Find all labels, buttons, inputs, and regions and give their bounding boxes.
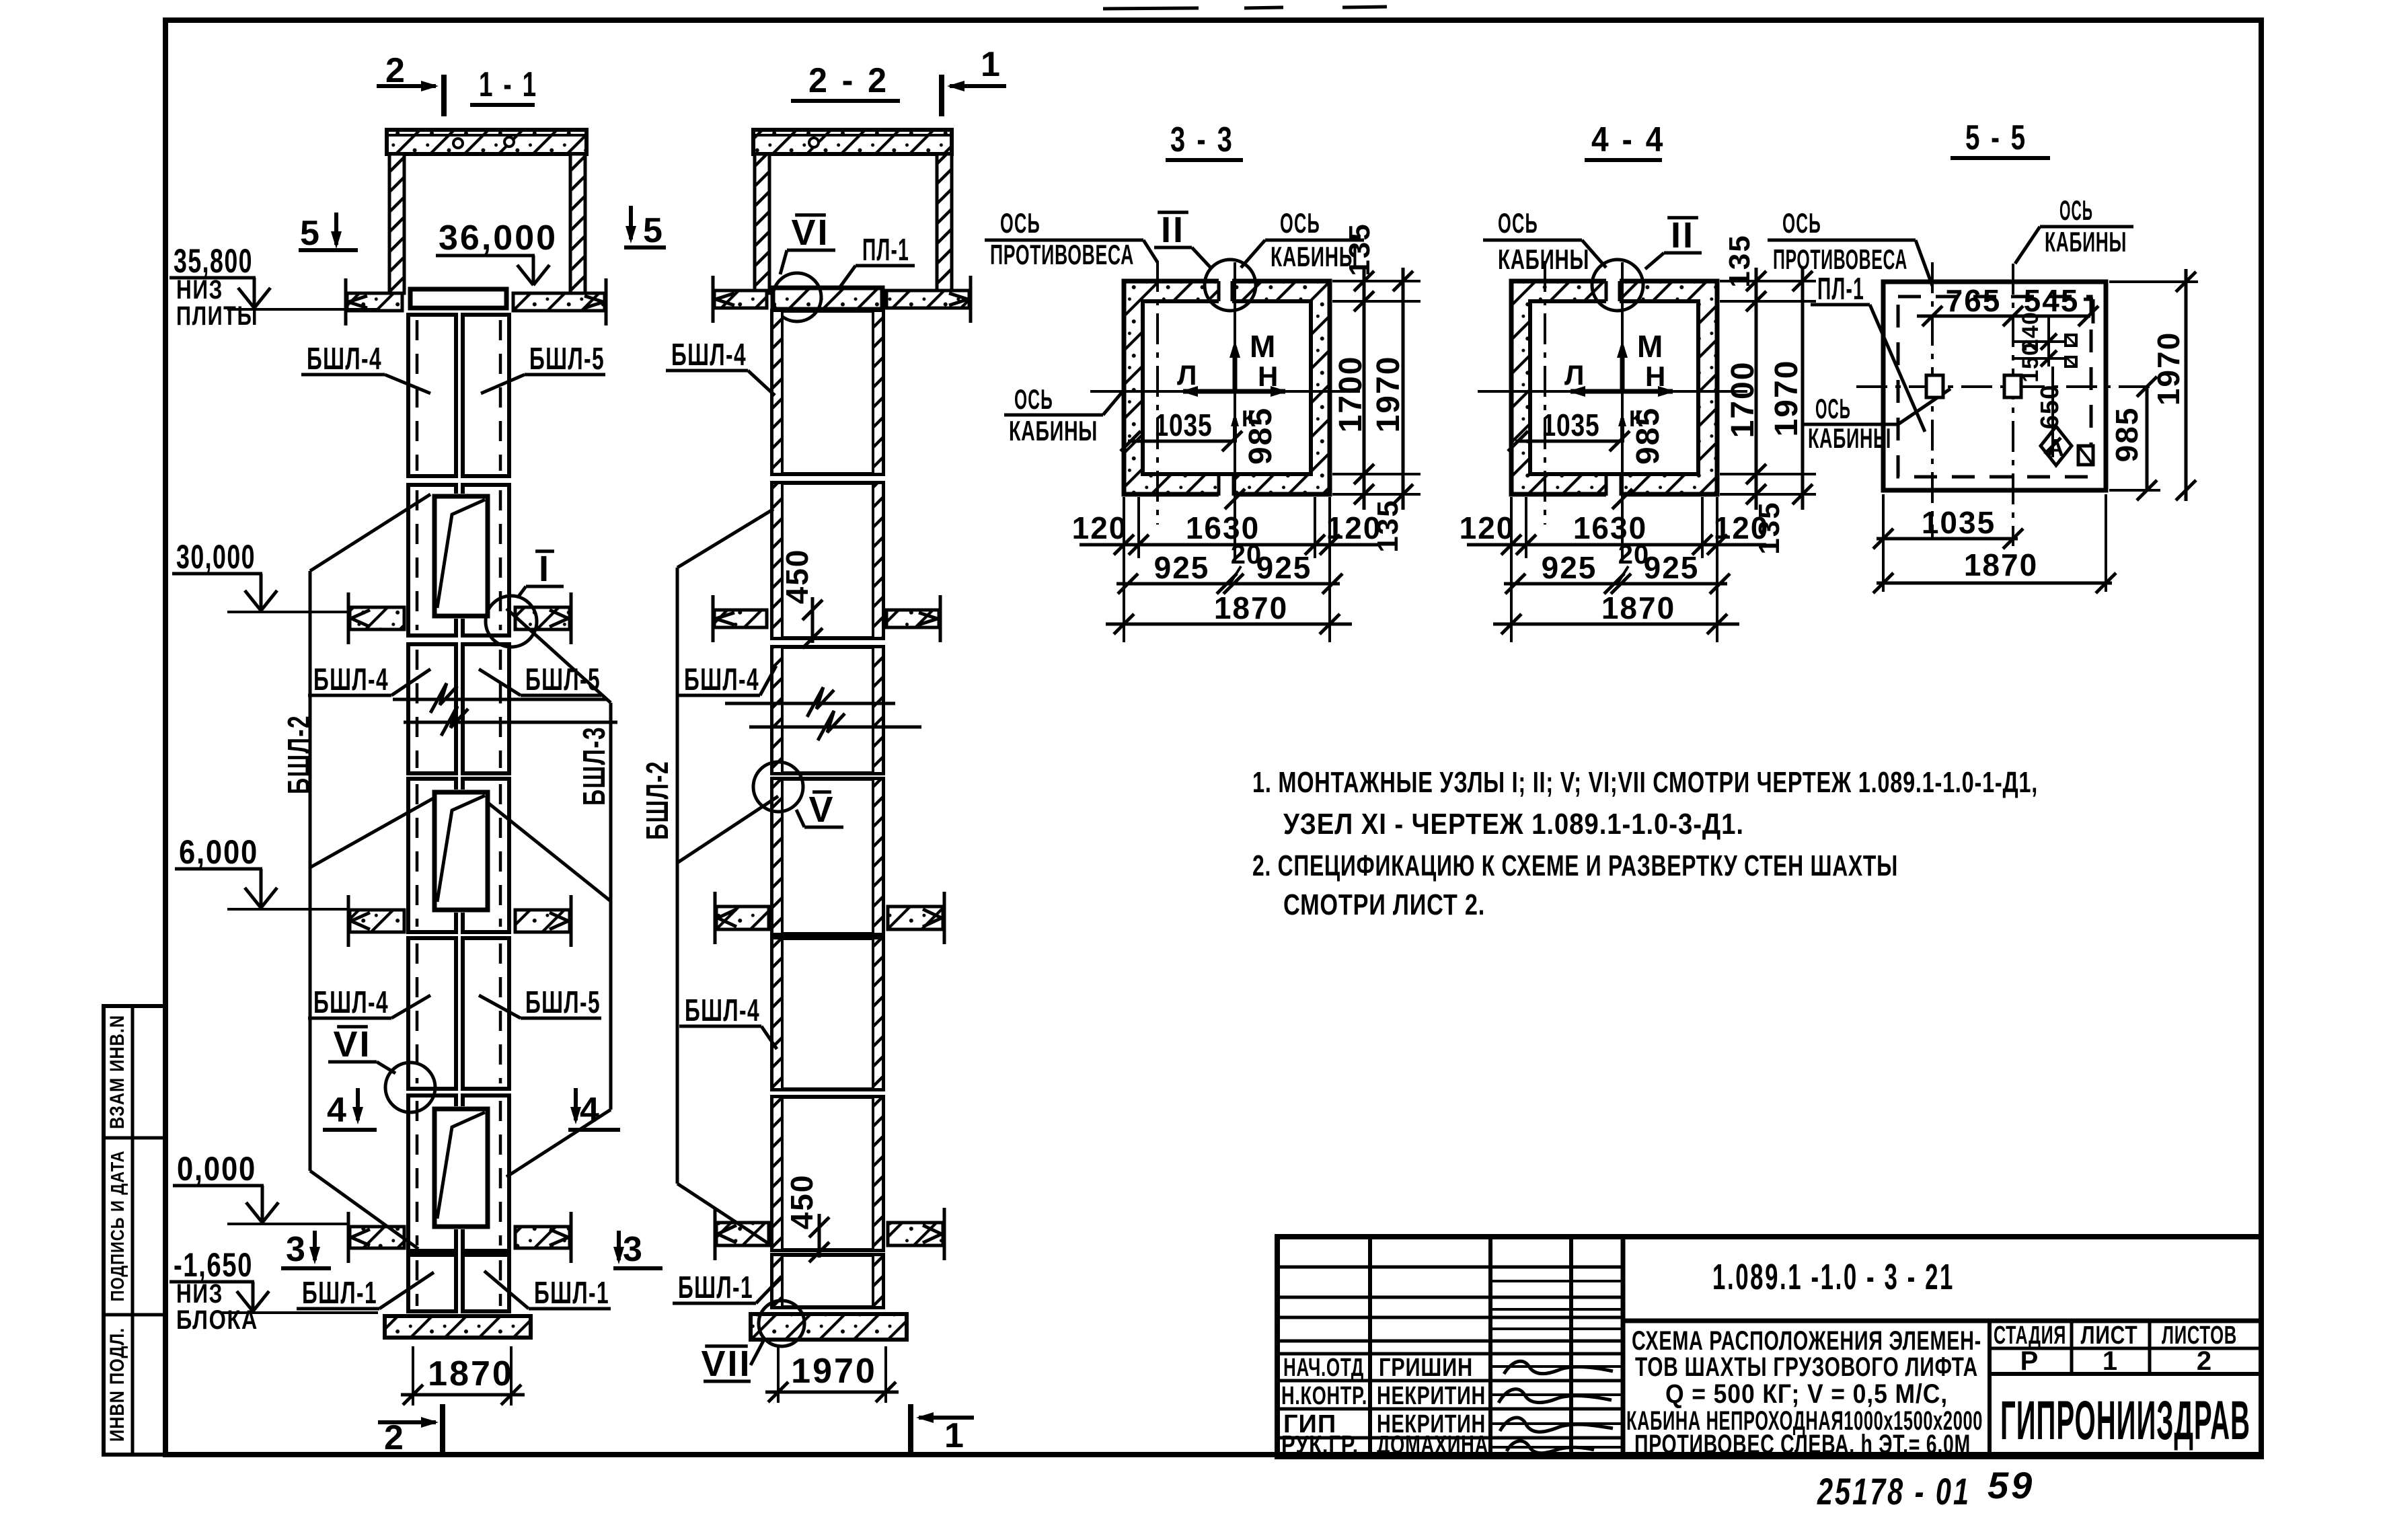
svg-text:ОСЬ: ОСЬ [1280,207,1320,239]
1-1 foundation slab [385,1316,531,1338]
5-5 dimension 985 right [2146,387,2149,490]
svg-text:БШЛ-4: БШЛ-4 [313,662,389,697]
2-2 shaft wall right segment 4 [873,779,883,934]
svg-text:1970: 1970 [2151,332,2186,406]
svg-text:925: 925 [1256,550,1312,585]
svg-text:КАБИНЫ: КАБИНЫ [1009,415,1098,447]
4-4 dimension line 1970 [1801,268,1805,510]
4-4 arrow L left [1570,389,1622,394]
svg-text:ДОМАХИНА: ДОМАХИНА [1377,1431,1488,1459]
4-4 dimension 1035 inner [1515,440,1622,443]
dimension 1970 bottom of 2-2 [777,1346,780,1403]
svg-text:VI: VI [791,213,829,253]
svg-text:450: 450 [780,549,815,605]
3-3 dimension 120 1630 120 [1080,543,1379,547]
svg-text:2: 2 [2197,1346,2213,1376]
1-1 guide rail dashed line right segment 5 [499,944,502,1083]
svg-text:985: 985 [1243,407,1279,465]
3-3 right dimension extension lines [1332,280,1421,282]
svg-text:120: 120 [1714,510,1770,545]
2-2 shaft wall right segment 2 [873,483,883,638]
1-1 intermediate floor slab level 6.000 left [350,910,404,932]
svg-text:БШЛ-2: БШЛ-2 [640,761,675,840]
1-1 guide rail dashed line right segment 7 [499,1260,502,1306]
1-1 intermediate floor slab level 30.000 right [515,607,570,629]
5-5 cabin guide bracket second [2066,357,2076,367]
2-2 break lines with zigzag [725,702,895,705]
3-3 dimension line 135-1700-135 [1363,268,1366,510]
1-1 shaft block column right BShL segment 3 [463,644,509,773]
svg-text:1 - 1: 1 - 1 [479,65,538,104]
svg-text:1970: 1970 [1769,360,1805,437]
signature squiggle 3 [1500,1418,1613,1432]
2-2 foundation slab [751,1314,907,1340]
svg-text:985: 985 [2109,407,2144,463]
svg-text:ЛИСТ: ЛИСТ [2081,1321,2138,1350]
2-2 shaft wall right segment 7 [873,1255,883,1307]
svg-text:135: 135 [1723,234,1756,287]
stadia list listov box [1987,1321,1992,1457]
svg-text:120: 120 [1460,510,1515,545]
5-5 corner mark top right [2084,298,2093,301]
section mark 1 top [939,75,944,116]
svg-text:КАБИНЫ: КАБИНЫ [1498,243,1589,275]
5-5 dimension 1970 right [2185,269,2188,501]
svg-text:БШЛ-4: БШЛ-4 [685,993,760,1028]
svg-text:НИЗ: НИЗ [176,1279,223,1309]
node circle V [753,762,803,812]
5-5 cabin guide bracket bottom [2078,446,2093,465]
svg-text:РУК.ГР.: РУК.ГР. [1281,1431,1359,1459]
svg-text:25178 - 01: 25178 - 01 [1817,1470,1971,1512]
svg-text:ОСЬ: ОСЬ [1782,207,1821,239]
svg-text:БШЛ-5: БШЛ-5 [525,662,601,697]
3-3 shaft plan walls [1124,281,1330,494]
svg-text:2. СПЕЦИФИКАЦИЮ К СХЕМЕ И: 2. СПЕЦИФИКАЦИЮ К СХЕМЕ И РАЗВЕРТКУ СТЕН… [1252,849,1898,882]
1-1 shaft block column left BShL segment 4 [408,779,456,932]
2-2 shaft block segment 3 outline [772,647,883,773]
svg-text:БШЛ-4: БШЛ-4 [684,662,759,697]
svg-text:Н: Н [1258,360,1279,392]
1-1 shaft block column left BShL segment 1 [408,315,456,476]
1-1 shaft block column right BShL segment 7 [463,1255,509,1311]
svg-text:БШЛ-1: БШЛ-1 [302,1275,377,1310]
1-1 guide rail dashed line left segment 1 [416,320,419,471]
2-2 machine room floor slab right [886,291,969,308]
1-1 guide rail dashed line right segment 2 [499,490,502,630]
2-2 shaft wall left segment 2 [772,483,782,638]
svg-text:5: 5 [300,214,321,253]
node circle I [486,596,537,647]
svg-text:5 - 5: 5 - 5 [1965,118,2027,157]
svg-text:БШЛ-5: БШЛ-5 [525,985,601,1019]
3-3 arrow K up small [1233,418,1237,442]
svg-text:ПРОТИВОВЕСА: ПРОТИВОВЕСА [990,239,1134,270]
1-1 machine room right wall [570,154,585,293]
scan artifact dashes top edge [1103,8,1199,9]
svg-text:БШЛ-3: БШЛ-3 [576,726,611,806]
svg-text:1970: 1970 [791,1352,877,1391]
svg-text:120: 120 [1072,510,1128,545]
5-5 cabin axis vertical line [2012,264,2014,546]
svg-text:36,000: 36,000 [439,219,558,258]
section mark 3 right [617,1231,621,1260]
1-1 shaft block column right BShL segment 2 [463,485,509,636]
svg-text:СХЕМА РАСПОЛОЖЕНИЯ ЭЛЕМЕН-: СХЕМА РАСПОЛОЖЕНИЯ ЭЛЕМЕН- [1632,1326,1981,1356]
svg-text:БШЛ-4: БШЛ-4 [671,337,747,372]
svg-text:БШЛ-1: БШЛ-1 [678,1270,753,1305]
svg-text:35,800: 35,800 [174,242,253,280]
svg-text:ИНВN ПОДЛ.: ИНВN ПОДЛ. [106,1327,128,1442]
2-2 intermediate floor slab mid right [888,907,943,929]
1-1 machine room floor slab left [347,293,402,311]
3-3 arrow L left [1183,389,1235,394]
svg-text:М: М [1250,329,1277,364]
2-2 intermediate floor slab upper right [886,610,939,627]
2-2 shaft wall right segment 5 [873,938,883,1089]
svg-text:II: II [1161,210,1185,250]
4-4 horizontal cabin axis line [1478,390,1747,393]
3-3 arrow M up [1233,347,1238,391]
3-3 top wall gap [1219,278,1232,305]
2-2 floor slab PL-1 [773,288,882,309]
1-1 machine room left wall [389,154,404,293]
svg-text:5: 5 [643,211,664,250]
svg-text:985: 985 [1630,407,1666,465]
svg-text:ОСЬ: ОСЬ [1815,393,1851,424]
4-4 dimension line 135-1700-135 [1755,268,1758,510]
svg-text:VI: VI [333,1024,371,1065]
svg-text:ЛИСТОВ: ЛИСТОВ [2162,1321,2237,1350]
svg-text:II: II [1671,215,1695,256]
1-1 shaft block column left BShL segment 6 [408,1095,456,1251]
1-1 guide rail dashed line left segment 6 [416,1101,419,1245]
2-2 shaft wall right segment 3 [873,647,883,773]
svg-text:1870: 1870 [1964,547,2038,582]
svg-text:120: 120 [1326,510,1382,545]
title block header divider [1623,1319,2261,1323]
svg-text:Q = 500 КГ; V = 0,5 М/С,: Q = 500 КГ; V = 0,5 М/С, [1665,1379,1948,1409]
2-2 intermediate floor slab lower left [716,1223,769,1245]
svg-text:2 - 2: 2 - 2 [808,61,889,100]
5-5 counterweight guide bracket left [1926,375,1943,397]
1-1 shaft block column right BShL segment 5 [463,938,509,1089]
4-4 bottom wall gap [1606,476,1621,499]
3-3 arrow N right [1235,389,1285,394]
svg-text:0,000: 0,000 [177,1150,256,1188]
svg-text:1035: 1035 [1922,505,1996,540]
5-5 cabin dashed outline [1898,297,2091,477]
svg-text:1.089.1 -1.0 - 3 - 21: 1.089.1 -1.0 - 3 - 21 [1712,1257,1955,1297]
1-1 door opening block segment 6 [432,1106,490,1229]
title block left table row lines [1277,1266,1623,1269]
svg-text:6,000: 6,000 [179,833,258,871]
section mark 4 right [574,1088,578,1120]
svg-text:ГИПРОНИИЗДРАВ: ГИПРОНИИЗДРАВ [2000,1390,2250,1451]
svg-text:-1,650: -1,650 [174,1246,253,1284]
3-3 dimension 1035 inner [1128,440,1235,443]
svg-text:УЗЕЛ XI - ЧЕРТЕЖ 1.089.1-1.: УЗЕЛ XI - ЧЕРТЕЖ 1.089.1-1.0-3-Д1. [1283,808,1744,841]
1-1 guide rail dashed line right segment 1 [499,320,502,471]
svg-text:1035: 1035 [1542,408,1600,442]
1-1 door opening block segment 2 [432,494,490,619]
3-3 cabin axis line [1234,262,1236,558]
svg-text:1700: 1700 [1725,361,1761,438]
svg-text:НЕКРИТИН: НЕКРИТИН [1377,1382,1486,1410]
signature squiggle 1 [1504,1361,1613,1374]
2-2 machine room left wall [755,154,769,293]
svg-text:БШЛ-4: БШЛ-4 [313,985,389,1019]
1-1 machine room floor slab right [513,293,605,311]
2-2 shaft block segment 5 outline [772,938,883,1089]
2-2 shaft block segment 2 outline [772,483,883,638]
1-1 top shaft band block [410,289,506,308]
svg-text:1: 1 [944,1416,965,1455]
left stamp strip boxes [104,1006,165,1455]
svg-text:КАБИНЫ: КАБИНЫ [2045,226,2127,258]
2-2 shaft wall left segment 7 [772,1255,782,1307]
svg-text:М: М [1637,329,1664,364]
5-5 dimension 240 150 chain [2047,316,2050,367]
svg-text:1870: 1870 [1601,590,1675,625]
title block vertical dividers [1368,1237,1372,1457]
3-3 dimension line 1970 [1402,268,1405,510]
5-5 dimension 1870 bottom [1877,582,2112,585]
2-2 shaft wall left segment 5 [772,938,782,1089]
4-4 cabin axis line [1621,262,1624,558]
1-1 guide rail dashed line left segment 3 [416,650,419,768]
svg-text:1700: 1700 [1333,356,1369,433]
svg-text:БШЛ-4: БШЛ-4 [307,341,382,376]
1-1 machine room top slab [387,130,586,154]
5-5 counterweight axis line [1931,262,1934,538]
svg-text:59: 59 [1987,1464,2035,1506]
svg-text:БЛОКА: БЛОКА [176,1305,258,1335]
svg-text:ОСЬ: ОСЬ [1014,383,1053,415]
dimension 1870 bottom of 1-1 [412,1346,414,1406]
1-1 intermediate floor slab level 0.000 right [515,1227,570,1248]
4-4 arrow K up small [1620,418,1624,442]
svg-text:ПЛ-1: ПЛ-1 [862,232,909,267]
2-2 machine room top slab [753,130,952,154]
svg-text:20: 20 [1231,540,1262,570]
1-1 door opening block segment 4 [432,790,490,913]
node circle VI on 1-1 [385,1063,435,1112]
svg-text:1970: 1970 [1371,356,1406,433]
5-5 node mark A diamond [2041,426,2072,465]
1-1 guide rail dashed line right segment 6 [499,1101,502,1245]
title block outer border [1277,1237,2261,1457]
4-4 arrow M up [1620,347,1625,391]
svg-text:1035: 1035 [1155,408,1213,442]
svg-text:ВЗАМ ИНВ.N: ВЗАМ ИНВ.N [106,1015,128,1129]
4-4 top wall gap [1606,278,1620,305]
2-2 shaft block segment 4 outline [772,779,883,934]
2-2 shaft block segment 1 outline [772,311,883,474]
svg-text:4 - 4: 4 - 4 [1591,120,1665,159]
svg-text:V: V [808,790,835,830]
2-2 shaft wall right segment 1 [873,311,883,474]
1-1 guide rail dashed line left segment 4 [416,784,419,927]
svg-text:ОСЬ: ОСЬ [1498,207,1538,239]
svg-text:БШЛ-1: БШЛ-1 [534,1275,609,1310]
4-4 bottom dimension extension lines [1510,497,1513,642]
svg-text:925: 925 [1542,550,1597,585]
4-4 shaft plan walls [1511,281,1717,494]
signature squiggle 4 [1507,1441,1594,1453]
1-1 shaft block column left BShL segment 2 [408,485,456,636]
svg-text:ПРОТИВОВЕС СЛЕВА, h ЭТ.= 6,0М: ПРОТИВОВЕС СЛЕВА, h ЭТ.= 6,0М [1634,1430,1971,1459]
section mark 5 right [629,206,633,239]
svg-text:450: 450 [784,1174,819,1230]
svg-text:3 - 3: 3 - 3 [1170,120,1234,159]
1-1 break lines with zigzag [393,698,607,701]
svg-text:3: 3 [286,1230,307,1269]
svg-text:1. МОНТАЖНЫЕ УЗЛЫ I; II; V;: 1. МОНТАЖНЫЕ УЗЛЫ I; II; V; VI;VII СМОТР… [1252,766,2038,799]
svg-text:VII: VII [701,1344,751,1384]
2-2 shaft wall left segment 3 [772,647,782,773]
svg-text:20: 20 [1618,540,1650,570]
1-1 intermediate floor slab level 0.000 left [350,1227,404,1248]
2-2 intermediate floor slab lower right [888,1223,943,1245]
2-2 shaft wall right segment 6 [873,1097,883,1250]
svg-text:НИЗ: НИЗ [176,275,223,305]
1-1 guide rail dashed line right segment 3 [499,650,502,768]
void circle in 2-2 top slab [809,138,819,147]
svg-text:4: 4 [327,1091,348,1130]
1-1 shaft block column right BShL segment 1 [463,315,509,476]
svg-text:Л: Л [1564,359,1585,391]
node circle VII [759,1301,804,1346]
2-2 shaft block segment 7 outline [772,1255,883,1307]
2-2 shaft wall left segment 1 [772,311,782,474]
1-1 guide rail dashed line right segment 4 [499,784,502,927]
2-2 intermediate floor slab upper left [714,610,767,627]
5-5 cabin guide bracket top [2066,335,2076,346]
svg-text:ГРИШИН: ГРИШИН [1379,1354,1473,1382]
4-4 dimension 925 20 925 [1504,582,1727,586]
3-3 horizontal cabin axis line [1090,390,1360,393]
svg-text:1870: 1870 [428,1354,514,1393]
5-5 dimension 765 545 [1917,315,2090,318]
3-3 bottom dimension extension lines [1123,497,1125,642]
signature squiggle 2 [1499,1389,1612,1403]
4-4 counterweight axis line [1544,261,1546,525]
svg-text:СМОТРИ ЛИСТ 2.: СМОТРИ ЛИСТ 2. [1283,888,1485,921]
3-3 counterweight axis line [1156,261,1159,525]
2-2 machine room right wall [937,154,952,293]
2-2 machine room floor slab left [714,291,767,308]
svg-text:925: 925 [1644,550,1700,585]
1-1 shaft block column left BShL segment 7 [408,1255,456,1311]
3-3 dimension 1870 [1106,623,1352,626]
4-4 right dimension extension lines [1720,280,1816,282]
1-1 guide rail dashed line left segment 2 [416,490,419,630]
1-1 intermediate floor slab level 6.000 right [515,910,570,932]
1-1 shaft block column left BShL segment 5 [408,938,456,1089]
svg-text:КАБИНЫ: КАБИНЫ [1808,422,1891,454]
5-5 shaft plan outline [1883,282,2106,490]
svg-text:1: 1 [981,45,1001,84]
svg-text:1870: 1870 [1214,590,1288,625]
svg-text:650: 650 [2036,385,2064,429]
svg-text:765: 765 [1946,283,2002,318]
svg-text:ОСЬ: ОСЬ [2059,194,2093,226]
void circles in 1-1 top slab [453,139,463,148]
2-2 shaft wall left segment 4 [772,779,782,934]
svg-text:Р: Р [2020,1346,2040,1376]
svg-text:ТОВ ШАХТЫ ГРУЗОВОГО ЛИФТА: ТОВ ШАХТЫ ГРУЗОВОГО ЛИФТА [1635,1352,1978,1382]
svg-text:ПЛ-1: ПЛ-1 [1817,271,1864,306]
section mark 1 bottom [908,1404,913,1453]
svg-text:ОСЬ: ОСЬ [1000,207,1040,239]
svg-text:150: 150 [2018,342,2043,383]
svg-text:925: 925 [1154,550,1210,585]
svg-text:135: 135 [1343,223,1376,276]
title block signature column fine rows [1490,1280,1623,1282]
1-1 shaft block column right BShL segment 6 [463,1095,509,1251]
5-5 dimension 1035 bottom [1877,537,2018,541]
4-4 arrow N right [1622,389,1673,394]
svg-text:3: 3 [623,1230,644,1269]
svg-text:Н: Н [1645,360,1667,392]
svg-text:ПОДПИСЬ И ДАТА: ПОДПИСЬ И ДАТА [107,1151,128,1302]
2-2 intermediate floor slab mid left [716,907,769,929]
2-2 shaft wall left segment 6 [772,1097,782,1250]
svg-text:БШЛ-5: БШЛ-5 [529,341,605,376]
3-3 dimension 925 20 925 [1116,582,1340,586]
node circle VI on 2-2 [773,273,821,321]
1-1 guide rail dashed line left segment 7 [416,1260,419,1306]
svg-text:НАЧ.ОТД: НАЧ.ОТД [1283,1354,1364,1382]
svg-text:СТАДИЯ: СТАДИЯ [1994,1321,2066,1350]
5-5 counterweight guide bracket right [2004,375,2021,397]
1-1 shaft block column left BShL segment 3 [408,644,456,773]
4-4 node circle II [1592,260,1643,311]
3-3 bottom wall gap [1219,476,1234,499]
svg-text:I: I [539,549,551,589]
svg-text:4: 4 [580,1091,601,1130]
3-3 node circle II [1205,260,1256,311]
5-5 dimension 650 [2051,367,2054,457]
5-5 cabin axis horizontal line [1856,385,2152,388]
svg-text:Л: Л [1177,359,1198,391]
svg-text:30,000: 30,000 [176,538,256,576]
1-1 intermediate floor slab level 30.000 left [350,607,404,629]
svg-text:Н.КОНТР.: Н.КОНТР. [1281,1382,1367,1410]
1-1 guide rail dashed line left segment 5 [416,944,419,1083]
svg-text:ПЛИТЫ: ПЛИТЫ [176,301,258,331]
1-1 shaft block column right BShL segment 4 [463,779,509,932]
4-4 dimension 120 1630 120 [1467,543,1766,547]
svg-text:1: 1 [2103,1346,2119,1376]
2-2 shaft block segment 6 outline [772,1097,883,1250]
svg-text:ПРОТИВОВЕСА: ПРОТИВОВЕСА [1773,243,1907,275]
4-4 dimension 1870 [1493,623,1739,626]
